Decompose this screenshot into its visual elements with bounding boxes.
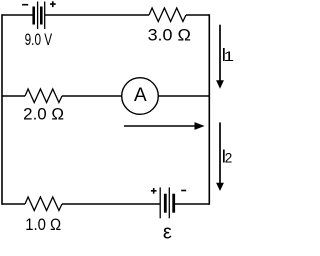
- wire bottom-left segment (left rail to resistor R3): [2, 203, 25, 205]
- battery B2 plus sign: [151, 188, 157, 194]
- battery B1 positive plate 2 (tall thin): [44, 2, 46, 30]
- wire top-left segment (corner to battery): [2, 14, 33, 16]
- battery B2 minus sign: [181, 190, 186, 192]
- svg-text:9.0 V: 9.0 V: [25, 31, 53, 49]
- svg-text:ε: ε: [163, 222, 172, 244]
- svg-text:2.0 Ω: 2.0 Ω: [23, 106, 64, 124]
- wire bottom-middle segment (resistor R3 to battery B2): [62, 203, 160, 205]
- battery B2 positive plate 2 (tall thin): [168, 187, 170, 218]
- svg-text:3.0 Ω: 3.0 Ω: [148, 26, 191, 44]
- resistor R3 zigzag 1.0 ohm: [25, 197, 62, 211]
- svg-text:1.0 Ω: 1.0 Ω: [25, 216, 61, 234]
- battery B1 minus sign: [22, 4, 28, 6]
- wire top-middle segment (battery to resistor R1): [45, 14, 149, 16]
- wire bottom-right segment (battery B2 to corner): [174, 203, 210, 205]
- current direction arrow (middle branch, pointing right): [124, 125, 195, 127]
- battery B1 negative plate 2 (short thick): [40, 7, 43, 25]
- svg-text:1: 1: [224, 49, 235, 64]
- svg-text:2: 2: [225, 150, 233, 165]
- battery B1 negative plate 1 (short thick): [32, 7, 35, 25]
- wire left vertical: [1, 14, 3, 205]
- resistor R2 zigzag 2.0 ohm: [25, 89, 62, 103]
- current I1 arrow (down, right of top-right branch): [219, 25, 221, 81]
- battery B2 positive plate 1 (tall thin): [159, 187, 161, 218]
- svg-text:A: A: [134, 85, 147, 106]
- ammeter A1 circle: [122, 78, 159, 115]
- wire middle-left segment (left rail to resistor R2): [2, 95, 25, 97]
- wire right vertical: [208, 14, 210, 205]
- battery B1 positive plate 1 (tall thin): [37, 2, 39, 30]
- wire middle-right segment (ammeter to right rail): [158, 95, 209, 97]
- battery B2 negative plate 2 (short thick): [172, 194, 175, 213]
- current I2 arrow (down, right of bottom-right branch): [219, 122, 221, 183]
- battery B2 negative plate 1 (short thick): [164, 194, 167, 213]
- resistor R1 zigzag 3.0 ohm: [149, 8, 186, 22]
- battery B1 plus sign: [50, 1, 56, 7]
- wire middle segment (resistor R2 to ammeter): [62, 95, 122, 97]
- wire top-right segment (resistor R1 to corner): [186, 14, 209, 16]
